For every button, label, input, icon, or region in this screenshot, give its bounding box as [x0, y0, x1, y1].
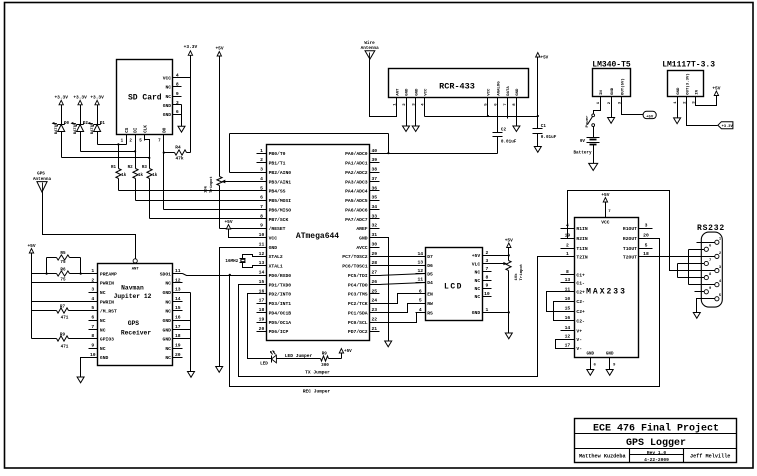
svg-text:18: 18 — [259, 307, 265, 313]
svg-text:24: 24 — [371, 298, 377, 304]
svg-text:14: 14 — [259, 270, 265, 276]
svg-text:+5V: +5V — [344, 349, 352, 354]
battery BT1 9V — [573, 127, 599, 164]
svg-text:11: 11 — [259, 241, 265, 247]
svg-text:VCC: VCC — [488, 88, 492, 96]
svg-text:+5V: +5V — [472, 253, 481, 259]
svg-text:PA3/ADC3: PA3/ADC3 — [345, 179, 368, 185]
svg-text:T2OUT: T2OUT — [623, 254, 637, 260]
svg-text:D7: D7 — [427, 254, 433, 260]
wire LM1117 GND to ground — [677, 97, 679, 118]
svg-text:NC: NC — [165, 355, 171, 361]
svg-text:DATA: DATA — [507, 86, 511, 96]
svg-text:16: 16 — [259, 288, 265, 294]
svg-text:30: 30 — [371, 241, 377, 247]
svg-text:+3.3V: +3.3V — [722, 125, 734, 129]
ground (LCD) — [505, 333, 512, 339]
wire GPS GND pin10 to ground — [81, 358, 89, 377]
wire REC Jumper: MAX233 R2OUT to ATmega RXD0 (pin14) — [230, 239, 660, 395]
svg-text:6: 6 — [176, 109, 179, 115]
svg-text:PREAMP: PREAMP — [100, 271, 117, 277]
svg-text:1k: 1k — [121, 173, 127, 178]
svg-text:NC: NC — [100, 346, 106, 352]
LCD display U7 — [416, 248, 492, 321]
svg-text:PA2/ADC2: PA2/ADC2 — [345, 170, 368, 176]
svg-text:8: 8 — [566, 269, 569, 275]
wire CLK net (SD pin5 / D0 / R3) — [62, 135, 151, 169]
svg-text:16: 16 — [565, 315, 571, 321]
svg-text:4: 4 — [176, 73, 179, 79]
wire RCR DATA stub — [507, 98, 509, 119]
svg-text:7: 7 — [91, 324, 94, 330]
svg-text:0.01uF: 0.01uF — [501, 139, 517, 144]
svg-text:GND: GND — [611, 87, 615, 95]
svg-text:SD Card: SD Card — [128, 94, 162, 103]
svg-text:/M_RST: /M_RST — [100, 309, 117, 315]
svg-text:75: 75 — [60, 260, 66, 265]
svg-text:NC: NC — [475, 270, 481, 276]
wire SS line to ATmega pin5 — [119, 190, 257, 192]
svg-text:GND: GND — [606, 352, 614, 356]
svg-text:17: 17 — [175, 324, 181, 330]
svg-text:6: 6 — [91, 315, 94, 321]
svg-text:11: 11 — [565, 286, 571, 292]
svg-text:+3.3V: +3.3V — [54, 94, 68, 100]
antenna (wire antenna) — [361, 41, 379, 60]
svg-text:VCC: VCC — [163, 76, 172, 82]
wire LCD GND and trimpot to ground — [492, 271, 510, 333]
svg-text:AVCC: AVCC — [356, 245, 367, 251]
svg-text:PA1/ADC1: PA1/ADC1 — [345, 161, 368, 167]
svg-text:Receiver: Receiver — [121, 329, 151, 336]
svg-text:2: 2 — [91, 277, 94, 283]
svg-text:12: 12 — [175, 277, 181, 283]
svg-text:27: 27 — [371, 270, 377, 276]
wire antenna to RCR ANT pin1 — [370, 60, 397, 117]
svg-text:10: 10 — [90, 352, 96, 358]
svg-text:NC: NC — [165, 85, 171, 91]
svg-text:GPS Logger: GPS Logger — [626, 438, 686, 449]
svg-text:R1: R1 — [111, 166, 117, 170]
svg-text:T1OUT: T1OUT — [623, 246, 637, 252]
crystal 16MHz — [225, 255, 256, 268]
svg-text:29: 29 — [371, 251, 377, 257]
svg-text:38: 38 — [371, 167, 377, 173]
svg-text:PD4/OC1B: PD4/OC1B — [269, 310, 292, 316]
svg-text:PA7/ADC7: PA7/ADC7 — [345, 217, 368, 223]
svg-text:21: 21 — [371, 326, 377, 332]
wire DO / MISO net (SD pin7 to ATmega pin7) — [164, 135, 257, 210]
wire RCR GND pin2 to ground — [406, 98, 408, 127]
svg-text:PC1/SDA: PC1/SDA — [348, 310, 368, 316]
capacitor jumper C2+ pins 11-15 — [547, 292, 561, 312]
svg-text:Matthew Kuzdeba: Matthew Kuzdeba — [579, 453, 626, 459]
svg-text:R9: R9 — [322, 351, 328, 356]
svg-text:17: 17 — [565, 343, 571, 349]
wire DB9 jumper pin7-pin8 — [678, 264, 705, 278]
svg-text:1: 1 — [485, 307, 488, 313]
svg-text:8: 8 — [91, 333, 94, 339]
svg-text:C1: C1 — [541, 124, 547, 129]
svg-text:1: 1 — [91, 268, 94, 274]
svg-text:PB5/MOSI: PB5/MOSI — [269, 198, 292, 204]
capacitor C1 0.01uF — [533, 124, 557, 146]
svg-text:NC: NC — [100, 318, 106, 324]
svg-text:PC3/TMS: PC3/TMS — [348, 292, 368, 298]
wire SCK line to ATmega pin8 — [150, 218, 257, 220]
svg-text:RS: RS — [427, 310, 433, 316]
ground (SD) — [178, 126, 185, 132]
svg-text:TX Jumper: TX Jumper — [305, 370, 330, 376]
svg-text:ANT: ANT — [396, 88, 400, 96]
svg-text:PD3/INT1: PD3/INT1 — [269, 301, 292, 307]
svg-text:ATmega644: ATmega644 — [296, 232, 339, 241]
wire ATmega GND pin11 to ground — [220, 248, 257, 367]
svg-text:PD2/INT0: PD2/INT0 — [269, 292, 292, 298]
svg-text:28: 28 — [371, 260, 377, 266]
wire LM340 IN to switch — [594, 97, 601, 114]
svg-text:OUT(5V): OUT(5V) — [620, 78, 625, 95]
svg-text:PD1/TXD0: PD1/TXD0 — [269, 282, 292, 288]
svg-text:23: 23 — [371, 307, 377, 313]
svg-text:19: 19 — [259, 316, 265, 322]
svg-text:26: 26 — [371, 279, 377, 285]
svg-text:33: 33 — [371, 213, 377, 219]
svg-text:3: 3 — [485, 258, 488, 264]
capacitor jumper C2- pins 10-16 — [554, 302, 561, 321]
svg-text:14: 14 — [175, 296, 181, 302]
+5V power arrow (GPS rail) — [27, 243, 35, 339]
svg-text:V+: V+ — [576, 329, 582, 335]
diode D1 (BAT85 clamp, CS line) — [88, 94, 106, 144]
svg-text:D6: D6 — [427, 263, 433, 269]
svg-text:GND: GND — [269, 245, 278, 251]
svg-text:2: 2 — [485, 250, 488, 256]
svg-text:MAX233: MAX233 — [586, 288, 627, 297]
svg-text:32: 32 — [371, 223, 377, 229]
svg-text:19: 19 — [175, 342, 181, 348]
svg-text:DO: DO — [163, 127, 167, 133]
svg-text:7: 7 — [485, 266, 488, 272]
ground (battery) — [589, 163, 598, 170]
svg-text:PD5/OC1A: PD5/OC1A — [269, 320, 292, 326]
ground (MAX233 pin6) — [587, 370, 594, 376]
svg-text:Battery: Battery — [573, 151, 591, 156]
svg-text:NC: NC — [100, 327, 106, 333]
svg-text:14: 14 — [565, 325, 571, 331]
svg-text:+5V: +5V — [712, 85, 720, 91]
+5V power arrow (RCR supply) — [536, 53, 549, 129]
svg-text:15: 15 — [259, 279, 265, 285]
svg-text:PA0/ADC0: PA0/ADC0 — [345, 151, 368, 157]
svg-text:+3.3V: +3.3V — [73, 94, 87, 100]
svg-text:C2: C2 — [501, 128, 507, 133]
svg-text:18: 18 — [643, 251, 649, 257]
svg-text:NC: NC — [475, 294, 481, 300]
svg-text:PWRIN: PWRIN — [100, 299, 114, 305]
wire MOSI line to ATmega pin6 — [136, 200, 257, 202]
svg-text:10k: 10k — [514, 273, 519, 281]
svg-text:D2: D2 — [83, 122, 89, 126]
ground (RCR pin8) — [513, 126, 520, 132]
regulator LM340-T5 U4 — [592, 61, 631, 105]
resistor R2 1k (DI to MOSI) — [128, 152, 144, 201]
svg-text:BAT85: BAT85 — [91, 122, 95, 134]
svg-text:GND: GND — [163, 103, 172, 109]
svg-text:DI: DI — [135, 127, 139, 133]
svg-text:GND: GND — [163, 318, 172, 324]
+5V power arrow (ATmega VCC pin10) — [224, 219, 256, 238]
ground (LM1117) — [674, 118, 681, 124]
svg-text:PA6/ADC6: PA6/ADC6 — [345, 207, 368, 213]
svg-text:GPIO3: GPIO3 — [100, 337, 114, 343]
svg-text:4: 4 — [260, 176, 263, 182]
resistor R4 47k (DO pull-up) — [163, 145, 191, 162]
wire +5V to GPS PWRIN pin2 — [32, 282, 89, 284]
svg-text:5: 5 — [645, 242, 648, 248]
resistor R7 471 (/M_RST pull) — [32, 304, 89, 320]
svg-text:BAT85: BAT85 — [55, 122, 59, 134]
svg-text:D1: D1 — [100, 122, 106, 126]
wire LM1117 OUT to +3.3V net flag — [687, 97, 718, 126]
svg-text:NC: NC — [100, 290, 106, 296]
resistor R9 471 (GPIO3 pull) — [32, 333, 89, 350]
svg-text:R2OUT: R2OUT — [623, 236, 637, 242]
svg-text:R6: R6 — [60, 268, 66, 273]
svg-text:GND: GND — [415, 88, 419, 96]
svg-text:Antenna: Antenna — [33, 177, 51, 182]
svg-text:22: 22 — [371, 316, 377, 322]
svg-text:R1IN: R1IN — [576, 226, 587, 232]
svg-text:8: 8 — [485, 274, 488, 280]
wire TX Jumper: ATmega TXD0 (pin15) to MAX233 T2IN — [239, 257, 561, 377]
svg-text:13: 13 — [565, 277, 571, 283]
svg-text:PWRIN: PWRIN — [100, 281, 114, 287]
svg-text:6: 6 — [260, 195, 263, 201]
wire +5V to GPS PWRIN pin4 — [32, 301, 89, 303]
svg-text:NC: NC — [165, 309, 171, 315]
svg-text:R3: R3 — [142, 166, 148, 170]
ground (ATmega pin31) — [385, 341, 392, 347]
svg-text:75: 75 — [60, 278, 66, 283]
svg-text:GND: GND — [516, 88, 520, 96]
svg-text:PD0/RXD0: PD0/RXD0 — [269, 273, 292, 279]
svg-text:PB6/MISO: PB6/MISO — [269, 207, 292, 213]
ground (RCR pin3) — [412, 126, 419, 132]
svg-text:IN: IN — [696, 89, 700, 94]
svg-text:C1-: C1- — [576, 280, 585, 286]
svg-text:47k: 47k — [175, 155, 183, 161]
svg-text:IN: IN — [600, 90, 604, 95]
svg-text:15: 15 — [175, 305, 181, 311]
svg-text:471: 471 — [61, 344, 69, 349]
ATmega644 U1 — [257, 145, 380, 341]
GPS module Navman Jupiter 12 U6 — [89, 259, 183, 366]
regulator LM1117T-3.3 U5 — [662, 61, 715, 104]
svg-text:PA4/ADC4: PA4/ADC4 — [345, 189, 368, 195]
svg-text:GND: GND — [472, 310, 481, 316]
svg-text:10: 10 — [259, 232, 265, 238]
svg-text:35: 35 — [371, 195, 377, 201]
svg-text:9V: 9V — [580, 139, 586, 144]
svg-text:13: 13 — [175, 287, 181, 293]
wire ATmega PC7-PC4 to LCD D7-D4 — [380, 257, 426, 285]
svg-text:8: 8 — [176, 82, 179, 88]
wire CS net (SD pin1 / D1 / R1) — [98, 135, 127, 146]
switch SW1 Power — [585, 114, 595, 128]
svg-text:13: 13 — [259, 260, 265, 266]
svg-text:5: 5 — [419, 298, 422, 304]
svg-text:R4: R4 — [175, 145, 181, 151]
ground (LM340) — [608, 118, 615, 124]
wire DB9 jumper pin6-pin4 — [689, 250, 715, 285]
connector RS232 DB9 J1 — [697, 224, 725, 307]
svg-text:9: 9 — [260, 223, 263, 229]
svg-text:GND: GND — [163, 337, 172, 343]
svg-text:D5: D5 — [427, 272, 433, 278]
svg-text:10: 10 — [565, 296, 571, 302]
svg-text:NC: NC — [165, 299, 171, 305]
RF receiver RCR-433 U3 — [389, 69, 529, 106]
svg-text:GND: GND — [163, 112, 172, 118]
svg-text:LCD: LCD — [444, 283, 463, 292]
svg-text:NC: NC — [165, 346, 171, 352]
svg-text:OUT(3.3V): OUT(3.3V) — [685, 73, 690, 95]
resistor R8 300 (LED series) — [321, 351, 342, 368]
svg-text:R9: R9 — [60, 333, 66, 338]
svg-text:PD7/OC2: PD7/OC2 — [348, 329, 368, 335]
SD Card U2 — [117, 60, 182, 144]
+5V power arrow (LCD supply) — [492, 237, 514, 260]
svg-text:GND: GND — [587, 352, 595, 356]
svg-text:BAT85: BAT85 — [74, 122, 78, 134]
svg-text:39: 39 — [371, 157, 377, 163]
svg-text:3: 3 — [260, 167, 263, 173]
node +3.3V net label — [718, 122, 734, 129]
wire LM340 GND to ground — [611, 97, 613, 118]
wire DB9 pin5 to ground — [697, 299, 715, 313]
wire SD VCC to +3.3V and pull-up rail — [182, 56, 191, 153]
diode D0 (BAT85 clamp, CLK line) — [52, 94, 70, 157]
wire GPS right-side GND pins to ground — [183, 293, 191, 372]
wire MAX233 T2OUT to DB9 pin2 — [653, 256, 715, 258]
+5V power arrow (MAX233 VCC pin7) — [601, 192, 611, 218]
svg-text:PC2/TCK: PC2/TCK — [348, 301, 368, 307]
svg-text:C2+: C2+ — [576, 290, 585, 296]
wire LM340 OUT to +5V net flag — [622, 97, 644, 115]
+3.3V power arrow (SD VCC) — [184, 44, 198, 55]
svg-text:1: 1 — [260, 148, 263, 154]
svg-text:PC5/TDI: PC5/TDI — [348, 273, 368, 279]
svg-text:T1IN: T1IN — [576, 246, 587, 252]
svg-text:NC: NC — [475, 278, 481, 284]
ground (MAX233 pin9) — [606, 370, 613, 376]
svg-text:37: 37 — [371, 176, 377, 182]
svg-text:34: 34 — [371, 204, 377, 210]
antenna (GPS antenna) — [33, 172, 51, 193]
wire MAX233 GND pins to ground — [587, 352, 616, 369]
wire RCR GND pin3 to ground — [415, 98, 417, 127]
svg-text:12: 12 — [259, 251, 265, 257]
wire analog signal to ADC0 (pin40) and AIN0 (pin3) — [230, 134, 498, 173]
svg-text:D4: D4 — [427, 280, 433, 286]
svg-text:VCC: VCC — [425, 88, 429, 96]
svg-text:R7: R7 — [60, 304, 66, 309]
svg-text:T2IN: T2IN — [576, 254, 587, 260]
svg-text:V-: V- — [576, 346, 582, 352]
svg-text:Navman: Navman — [121, 285, 144, 292]
wire LM1117 IN to +5V — [696, 96, 717, 106]
svg-text:PB0/T0: PB0/T0 — [269, 151, 286, 157]
svg-text:13: 13 — [417, 260, 423, 266]
svg-text:NC: NC — [165, 281, 171, 287]
+5V power arrow (LED pull) — [339, 349, 352, 355]
resistor 10k Trimpot (LCD contrast) — [492, 261, 525, 281]
ground (DB9 pin5) — [693, 313, 700, 319]
resistor R5 75 (parallel antenna feed) — [32, 251, 81, 274]
svg-text:12: 12 — [565, 334, 571, 340]
svg-text:CLK: CLK — [145, 125, 149, 133]
svg-text:PB7/SCK: PB7/SCK — [269, 217, 289, 223]
svg-text:GND: GND — [406, 88, 410, 96]
svg-text:LM1117T-3.3: LM1117T-3.3 — [662, 61, 715, 70]
svg-text:VCC: VCC — [601, 219, 610, 225]
svg-text:36: 36 — [371, 185, 377, 191]
ground (C1) — [534, 147, 541, 153]
svg-text:+5V: +5V — [505, 237, 513, 243]
svg-text:10: 10 — [484, 291, 490, 297]
svg-text:14: 14 — [417, 251, 423, 257]
svg-text:3: 3 — [91, 287, 94, 293]
svg-text:1k: 1k — [138, 173, 144, 178]
svg-text:40: 40 — [371, 148, 377, 154]
svg-text:16MHz: 16MHz — [225, 259, 238, 264]
svg-text:+5V: +5V — [601, 192, 609, 198]
svg-text:8: 8 — [260, 213, 263, 219]
svg-text:11: 11 — [175, 268, 181, 274]
svg-text:+3.3V: +3.3V — [90, 94, 104, 100]
svg-text:16: 16 — [175, 315, 181, 321]
svg-text:+5V: +5V — [224, 219, 232, 225]
node +5V net label — [643, 111, 656, 119]
svg-text:20: 20 — [259, 326, 265, 332]
wire DI net (SD pin2 / D2 / R2) — [81, 135, 137, 153]
ground (ATmega pin11) — [216, 367, 223, 373]
wire DB9 pin9 stub — [695, 291, 705, 293]
svg-text:PD6/ICP: PD6/ICP — [269, 329, 289, 335]
svg-text:4-22-2009: 4-22-2009 — [644, 457, 669, 463]
svg-text:PC0/SCL: PC0/SCL — [348, 320, 368, 326]
svg-text:VLC: VLC — [472, 261, 481, 267]
svg-text:9: 9 — [176, 91, 179, 97]
svg-text:ANT: ANT — [132, 267, 140, 271]
resistor 10k Trimpot — [204, 176, 257, 193]
svg-text:GPS: GPS — [37, 172, 45, 177]
svg-text:NC: NC — [165, 94, 171, 100]
ground (GPS right GNDs) — [188, 372, 195, 378]
svg-text:2: 2 — [566, 242, 569, 248]
svg-text:SDO1: SDO1 — [160, 271, 171, 277]
svg-text:CS: CS — [126, 127, 130, 133]
svg-text:Trimpot: Trimpot — [519, 263, 524, 280]
wire DB9 pin1 stub — [697, 242, 715, 244]
svg-text:Antenna: Antenna — [361, 46, 379, 51]
svg-text:C2-: C2- — [576, 319, 585, 325]
svg-text:15: 15 — [565, 306, 571, 312]
+5V power arrow (LM1117 input) — [714, 91, 718, 96]
svg-text:Jupiter 12: Jupiter 12 — [114, 293, 152, 300]
svg-text:Rev 1.0: Rev 1.0 — [647, 450, 667, 456]
